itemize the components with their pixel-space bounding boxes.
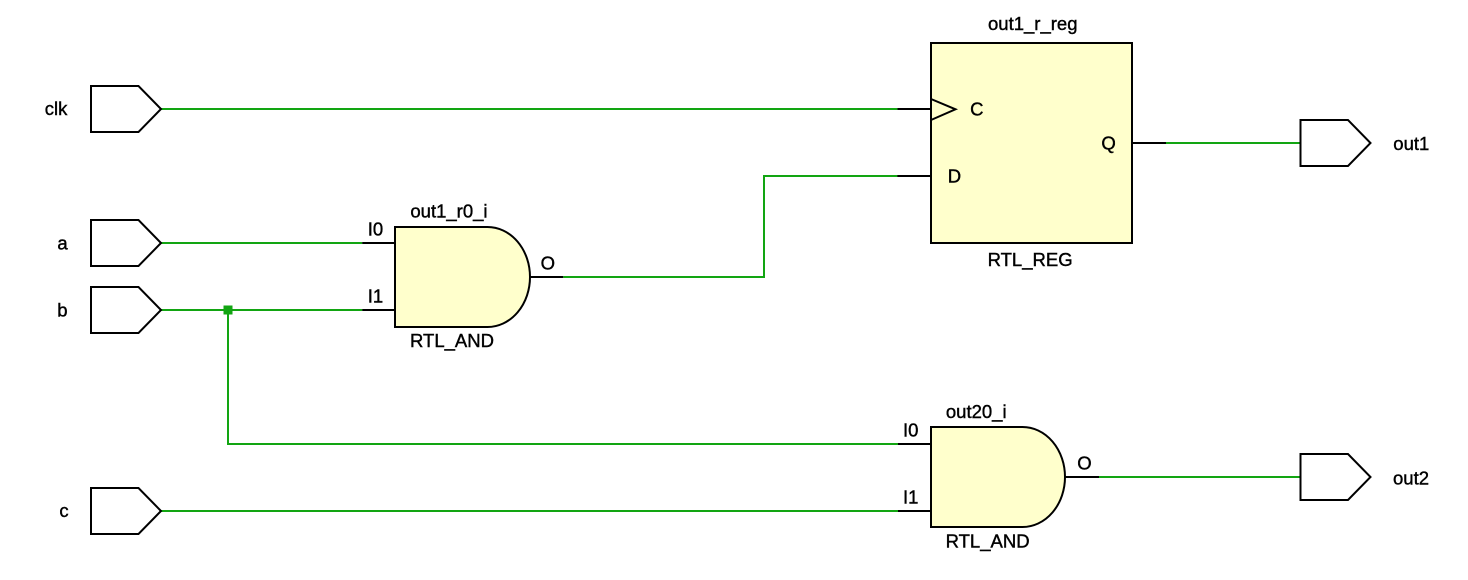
svg-text:b: b: [57, 300, 67, 321]
svg-text:I1: I1: [368, 285, 383, 306]
svg-text:RTL_AND: RTL_AND: [410, 330, 494, 352]
svg-text:RTL_AND: RTL_AND: [946, 531, 1030, 553]
svg-text:Q: Q: [1101, 132, 1115, 153]
svg-text:D: D: [948, 166, 961, 187]
svg-text:out20_i: out20_i: [946, 401, 1007, 423]
svg-text:I0: I0: [368, 218, 383, 239]
svg-text:I1: I1: [903, 486, 918, 507]
svg-text:O: O: [1077, 452, 1091, 473]
svg-text:out1_r_reg: out1_r_reg: [988, 13, 1077, 35]
svg-text:O: O: [541, 252, 555, 273]
svg-text:out2: out2: [1393, 467, 1429, 488]
svg-text:out1_r0_i: out1_r0_i: [410, 200, 487, 222]
svg-text:clk: clk: [45, 98, 68, 119]
svg-text:C: C: [970, 99, 983, 120]
svg-text:c: c: [59, 500, 68, 521]
svg-text:RTL_REG: RTL_REG: [988, 249, 1073, 271]
svg-text:a: a: [57, 232, 68, 253]
svg-text:out1: out1: [1393, 133, 1429, 154]
svg-text:I0: I0: [903, 419, 918, 440]
